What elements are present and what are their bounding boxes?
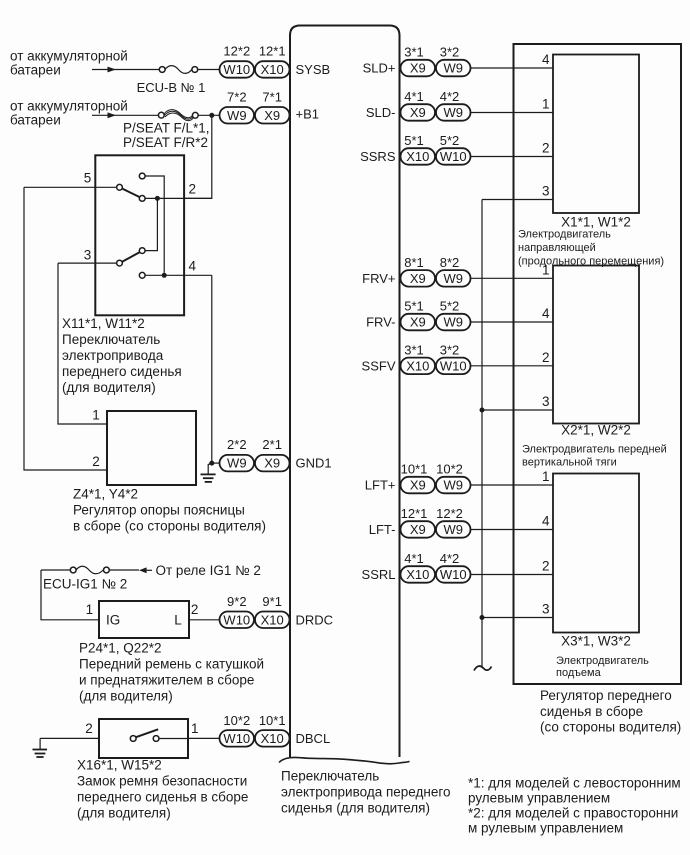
svg-text:2: 2 — [189, 182, 197, 197]
switch arm pin3 — [122, 252, 140, 262]
wire battery feed 1 — [92, 69, 159, 71]
svg-text:переднего сиденья в сборе: переднего сиденья в сборе — [77, 790, 248, 805]
wire buckle internal — [159, 738, 188, 740]
label fuse ECU-B № 1 — [137, 80, 206, 95]
switch arm pin5 — [122, 189, 140, 198]
svg-text:подъема: подъема — [556, 667, 602, 679]
connector W9 (12*2) — [436, 521, 471, 538]
pin 2 label of motor M3 — [542, 559, 550, 574]
wire W9 to motor pin (row y=322.0) — [470, 321, 553, 323]
motor M3 (X3) box — [553, 474, 639, 633]
wire fuse to arrow — [109, 569, 139, 571]
node: from battery (feed 1) text — [10, 49, 128, 78]
pin label SSRL of switch block — [362, 567, 396, 582]
svg-text:X9: X9 — [264, 108, 280, 123]
wire W9 to motor pin (row y=112.5) — [470, 112, 553, 114]
svg-text:4: 4 — [542, 52, 550, 67]
wire pin5 bus down to lumbar pin 2 — [24, 187, 107, 470]
svg-text:W10: W10 — [223, 612, 250, 627]
P24 pin IG label — [106, 612, 120, 627]
svg-text:12*2: 12*2 — [436, 506, 463, 521]
P24 pin L label — [174, 612, 182, 627]
pin labels 5*1 5*2 — [404, 299, 459, 314]
buckle contact right — [153, 736, 159, 742]
connector W10 (12*2) — [220, 61, 255, 77]
svg-text:Электродвигатель передней: Электродвигатель передней — [522, 443, 667, 455]
wire P24 pin2 to connector — [189, 619, 220, 621]
connector X9 (12*1) — [401, 521, 436, 538]
pin 2 label of motor M2 — [542, 350, 550, 365]
svg-text:батареи: батареи — [10, 113, 61, 128]
svg-text:X3*1, W3*2: X3*1, W3*2 — [561, 634, 631, 649]
connector X10 (5*1) — [401, 148, 436, 165]
svg-text:SLD-: SLD- — [366, 105, 396, 120]
svg-text:5*2: 5*2 — [440, 133, 460, 148]
lumbar regulator Z4*1 Y4*2 box — [107, 411, 196, 485]
connector X9 (3*1) — [401, 60, 436, 77]
svg-text:8*1: 8*1 — [404, 255, 424, 270]
svg-text:5: 5 — [84, 171, 92, 186]
pin 4 label of motor M2 — [542, 306, 550, 321]
svg-text:3*1: 3*1 — [404, 45, 424, 60]
pin label SLD- of switch block — [366, 105, 396, 120]
pin labels 5*1 5*2 — [404, 133, 459, 148]
pin labels 3*1 3*2 — [404, 342, 459, 357]
junction +B1 node — [209, 113, 214, 118]
svg-text:2: 2 — [191, 602, 199, 617]
svg-text:4*2: 4*2 — [440, 551, 460, 566]
pin label SSRS of switch block — [360, 149, 396, 164]
pin 5 label — [84, 171, 92, 186]
svg-text:от аккумуляторной: от аккумуляторной — [10, 99, 128, 114]
connector W9 (10*2) — [436, 477, 471, 494]
svg-text:2: 2 — [542, 350, 550, 365]
svg-text:*2: для моделей с правосторонн: *2: для моделей с правосторонни — [468, 806, 678, 821]
wire pin3 bus down to lumbar pin 1 — [58, 263, 107, 424]
pin labels 3*1 3*2 — [404, 45, 459, 60]
contact pin5 circle — [117, 184, 123, 190]
fuse ECU-IG1 No2 — [70, 566, 109, 574]
connector X9 (4*1) — [401, 104, 436, 121]
svg-text:10*2: 10*2 — [436, 462, 463, 477]
svg-text:X16*1, W15*2: X16*1, W15*2 — [77, 758, 162, 773]
svg-text:(со стороны водителя): (со стороны водителя) — [540, 720, 681, 735]
pin label GND1 of switch block — [296, 456, 332, 471]
lumbar pin 2 label — [92, 454, 100, 469]
svg-text:SSRS: SSRS — [360, 149, 396, 164]
wire battery feed 2 — [92, 114, 159, 116]
connector W9 (8*2) — [436, 270, 471, 287]
pin 1 label of motor M3 — [542, 469, 550, 484]
connector W10 (5*2) — [436, 148, 471, 165]
svg-text:От реле IG1 № 2: От реле IG1 № 2 — [156, 563, 261, 578]
pin label SYSB of switch block — [296, 62, 331, 77]
svg-text:7*2: 7*2 — [227, 89, 247, 104]
svg-text:X9: X9 — [410, 61, 426, 76]
svg-text:4: 4 — [542, 514, 550, 529]
connector X10 (3*1) — [401, 358, 436, 375]
svg-text:12*2: 12*2 — [223, 44, 250, 59]
junction j2 in switch — [162, 273, 167, 278]
pin label FRV+ of switch block — [362, 271, 395, 286]
svg-text:3: 3 — [84, 247, 92, 262]
svg-text:SSFV: SSFV — [362, 358, 396, 373]
connector X9 (8*1) — [401, 270, 436, 287]
wire W10 to motor pin (row y=574.5) — [470, 574, 553, 576]
svg-text:1: 1 — [86, 602, 94, 617]
svg-text:Замок ремня безопасности: Замок ремня безопасности — [77, 774, 247, 789]
svg-text:4*1: 4*1 — [404, 551, 424, 566]
junction bus-M3pin3 — [480, 615, 485, 620]
svg-text:X10: X10 — [406, 358, 429, 373]
wire W9 to motor pin (row y=278.3) — [470, 277, 553, 279]
svg-text:X9: X9 — [410, 271, 426, 286]
wire W10 to motor pin (row y=365.8) — [470, 365, 553, 367]
junction j1 in switch — [155, 196, 160, 201]
switch X11*1 W11*2 box — [95, 155, 184, 315]
svg-text:от аккумуляторной: от аккумуляторной — [10, 49, 128, 64]
svg-text:9*2: 9*2 — [227, 594, 247, 609]
pin labels 4*1 4*2 — [404, 551, 459, 566]
svg-text:(для водителя): (для водителя) — [62, 380, 156, 395]
pin 2 label — [189, 182, 197, 197]
svg-text:ECU-IG1 № 2: ECU-IG1 № 2 — [43, 577, 127, 592]
svg-text:DRDC: DRDC — [296, 612, 334, 627]
svg-text:X9: X9 — [264, 456, 280, 471]
svg-text:сиденья в сборе: сиденья в сборе — [540, 704, 643, 719]
svg-text:направляющей: направляющей — [518, 242, 596, 254]
contact b circle — [139, 196, 145, 202]
wire link to connector W9 — [198, 114, 219, 116]
svg-text:12*1: 12*1 — [259, 44, 286, 59]
svg-text:(для водителя): (для водителя) — [77, 806, 171, 821]
svg-text:W10: W10 — [440, 149, 467, 164]
svg-text:Переключатель: Переключатель — [62, 332, 160, 347]
svg-text:Переключатель: Переключатель — [281, 769, 379, 784]
wire contact a to internal bus — [145, 176, 164, 273]
svg-text:4*2: 4*2 — [440, 89, 460, 104]
svg-text:Передний ремень с катушкой: Передний ремень с катушкой — [79, 657, 264, 672]
contact pin3 circle — [117, 260, 123, 266]
pin 2 label of motor M1 — [542, 141, 550, 156]
svg-text:W9: W9 — [227, 108, 247, 123]
svg-text:10*1: 10*1 — [401, 462, 428, 477]
svg-text:W9: W9 — [443, 315, 463, 330]
connector X9 (2*1) — [255, 455, 290, 472]
svg-text:м рулевым управлением: м рулевым управлением — [468, 821, 623, 836]
connector W10 (9*2) — [220, 612, 255, 629]
svg-text:1: 1 — [191, 721, 199, 736]
buckle contact left — [130, 736, 136, 742]
wire M1 pin3 to common bus — [482, 199, 553, 201]
arrow from relay IG1 — [139, 567, 152, 573]
connector X10 (12*1) — [255, 61, 290, 77]
connector W10 (10*2) — [220, 730, 255, 747]
connector W9 (7*2) — [220, 107, 255, 124]
bus continuation break wave — [474, 666, 492, 670]
svg-text:W10: W10 — [223, 731, 250, 746]
connector W10 (4*2) — [436, 566, 471, 583]
svg-text:5*1: 5*1 — [404, 133, 424, 148]
svg-text:Регулятор опоры поясницы: Регулятор опоры поясницы — [73, 503, 245, 518]
svg-text:1: 1 — [92, 408, 100, 423]
svg-text:8*2: 8*2 — [440, 255, 460, 270]
svg-text:вертикальной тяги: вертикальной тяги — [522, 456, 617, 468]
svg-text:3*2: 3*2 — [440, 45, 460, 60]
svg-text:электропривода: электропривода — [62, 348, 164, 363]
svg-text:X9: X9 — [410, 522, 426, 537]
lumbar caption — [73, 487, 266, 534]
buckle switch X16*1 W15*2 box — [99, 719, 188, 758]
svg-text:1: 1 — [542, 469, 550, 484]
pin 3 label — [84, 247, 92, 262]
connector W10 (3*2) — [436, 358, 471, 375]
node: from battery (feed 2) text — [10, 99, 128, 128]
buckle pin 1 label — [191, 721, 199, 736]
svg-text:W10: W10 — [440, 567, 467, 582]
pin labels 8*1 8*2 — [404, 255, 459, 270]
motor M3 caption — [556, 634, 649, 679]
pin label LFT+ of switch block — [365, 478, 396, 493]
motor M2 caption — [522, 423, 667, 469]
pin 4 label of motor M3 — [542, 514, 550, 529]
svg-text:W9: W9 — [443, 271, 463, 286]
svg-text:W9: W9 — [443, 61, 463, 76]
svg-text:батареи: батареи — [10, 63, 61, 78]
motor M1 (X1) box — [553, 55, 639, 214]
pin labels 7*2 7*1 — [227, 89, 282, 104]
svg-text:5*1: 5*1 — [404, 299, 424, 314]
svg-text:SSRL: SSRL — [362, 567, 396, 582]
svg-text:ECU-B № 1: ECU-B № 1 — [137, 80, 206, 95]
pin 4 label of motor M1 — [542, 52, 550, 67]
op-amp-like main block: power seat switch body U1 — [290, 26, 400, 758]
svg-text:электропривода переднего: электропривода переднего — [281, 785, 450, 800]
svg-text:Z4*1, Y4*2: Z4*1, Y4*2 — [73, 487, 138, 502]
pin labels 2*2 2*1 — [227, 437, 282, 452]
svg-text:10*1: 10*1 — [259, 713, 286, 728]
svg-text:4: 4 — [542, 306, 550, 321]
wire M2 pin3 to bus — [482, 409, 553, 411]
main block bottom break wave — [279, 757, 410, 763]
svg-text:FRV-: FRV- — [366, 315, 395, 330]
node: from relay IG1 № 2 text — [156, 563, 261, 578]
connector X10 (10*1) — [255, 730, 290, 747]
pin 3 label of motor M2 — [542, 394, 550, 409]
svg-text:X9: X9 — [410, 315, 426, 330]
svg-text:+B1: +B1 — [296, 107, 320, 122]
svg-text:X10: X10 — [406, 149, 429, 164]
connector X9 (7*1) — [255, 107, 290, 124]
footnote *1 *2 — [468, 776, 681, 836]
seat regulator assembly box — [514, 44, 682, 684]
svg-text:X2*1, W2*2: X2*1, W2*2 — [561, 423, 631, 438]
svg-text:12*1: 12*1 — [401, 506, 428, 521]
arrow battery feed 1 — [108, 67, 117, 73]
svg-text:и преднатяжителем в сборе: и преднатяжителем в сборе — [79, 673, 254, 688]
wire buckle pin1 to connector — [188, 737, 220, 739]
svg-text:X10: X10 — [261, 612, 284, 627]
contact a (top) of switch X11 — [139, 173, 145, 179]
connector X10 (4*1) — [401, 566, 436, 583]
wire contact b to pin 2 — [145, 197, 212, 199]
pin label SSFV of switch block — [362, 358, 396, 373]
svg-text:FRV+: FRV+ — [362, 271, 395, 286]
pin labels 10*1 10*2 — [401, 462, 463, 477]
svg-text:2: 2 — [92, 454, 100, 469]
svg-text:2*2: 2*2 — [227, 437, 247, 452]
wire fuse feed — [41, 569, 70, 571]
pin 4 label — [189, 258, 197, 273]
wire fuse to connector W10 — [198, 69, 220, 71]
wire pin 3 leaving box — [58, 262, 117, 264]
svg-text:4: 4 — [189, 258, 197, 273]
connector X10 (9*1) — [255, 612, 290, 629]
connector W9 (3*2) — [436, 60, 471, 77]
pretensioner caption — [79, 641, 264, 704]
switch X11 caption — [62, 316, 182, 395]
svg-text:W9: W9 — [443, 478, 463, 493]
svg-text:в сборе (со стороны водителя): в сборе (со стороны водителя) — [73, 519, 266, 534]
connector W9 (2*2) — [220, 455, 255, 472]
wire W9 to motor pin (row y=68.0) — [470, 67, 553, 69]
svg-text:1: 1 — [542, 97, 550, 112]
junction bus-M2pin3 — [480, 408, 485, 413]
svg-text:3: 3 — [542, 184, 550, 199]
svg-text:2*1: 2*1 — [262, 437, 282, 452]
connector X9 (10*1) — [401, 477, 436, 494]
buckle pin 2 label — [85, 721, 93, 736]
wire common bus vertical — [481, 200, 483, 668]
svg-text:LFT-: LFT- — [369, 522, 396, 537]
svg-text:4*1: 4*1 — [404, 89, 424, 104]
svg-text:*1: для моделей с левосторонни: *1: для моделей с левосторонним — [468, 776, 681, 791]
svg-text:(продольного перемещения): (продольного перемещения) — [518, 255, 664, 267]
svg-text:X10: X10 — [261, 62, 284, 77]
wire pin 4 down to GND1 node — [211, 275, 213, 463]
pin label SLD+ of switch block — [363, 61, 396, 76]
pin label DRDC of switch block — [296, 612, 334, 627]
svg-text:W10: W10 — [223, 62, 250, 77]
svg-text:2: 2 — [85, 721, 93, 736]
P24 pin 1 label — [86, 602, 94, 617]
wire ground to buckle pin 2 — [40, 737, 99, 739]
svg-text:IG: IG — [106, 612, 120, 627]
pin 3 label of motor M1 — [542, 184, 550, 199]
svg-text:X10: X10 — [261, 731, 284, 746]
svg-text:LFT+: LFT+ — [365, 478, 396, 493]
pin label DBCL of switch block — [296, 731, 331, 746]
svg-text:переднего сиденья: переднего сиденья — [62, 364, 182, 379]
pin 3 label of motor M3 — [542, 602, 550, 617]
connector W9 (4*2) — [436, 104, 471, 121]
wire +B1 node down to switch pin 2 — [185, 115, 212, 198]
svg-text:3*2: 3*2 — [440, 342, 460, 357]
ground symbol at buckle switch — [33, 738, 48, 757]
svg-text:SLD+: SLD+ — [363, 61, 396, 76]
svg-text:2: 2 — [542, 141, 550, 156]
svg-text:сиденья (для водителя): сиденья (для водителя) — [281, 801, 430, 816]
svg-text:Регулятор переднего: Регулятор переднего — [540, 688, 672, 703]
pin label +B1 of switch block — [296, 107, 320, 122]
main block caption — [281, 769, 450, 816]
svg-text:9*1: 9*1 — [262, 594, 282, 609]
pretensioner P24*1 Q22*2 box — [99, 601, 189, 638]
pin 1 label of motor M2 — [542, 262, 550, 277]
svg-text:P24*1, Q22*2: P24*1, Q22*2 — [79, 641, 162, 656]
wire j1 down to contact c — [145, 198, 157, 250]
pin labels 12*1 12*2 — [401, 506, 463, 521]
svg-text:SYSB: SYSB — [296, 62, 331, 77]
pin label LFT- of switch block — [369, 522, 396, 537]
pin 1 label of motor M1 — [542, 97, 550, 112]
svg-text:DBCL: DBCL — [296, 731, 331, 746]
wire W10 to motor pin (row y=156.5) — [470, 156, 553, 158]
connector W9 (5*2) — [436, 314, 471, 331]
svg-text:X10: X10 — [406, 567, 429, 582]
label fusible link P/SEAT — [123, 120, 210, 150]
contact d (bottom) circle — [139, 272, 145, 278]
svg-text:3: 3 — [542, 602, 550, 617]
wire GND1 node to connector — [212, 462, 220, 464]
pin labels 12*2 12*1 — [223, 44, 285, 59]
lumbar pin 1 label — [92, 408, 100, 423]
svg-text:3: 3 — [542, 394, 550, 409]
wire from fuse down to P24 pin 1 — [41, 570, 99, 620]
pin label FRV- of switch block — [366, 315, 395, 330]
svg-text:X9: X9 — [410, 478, 426, 493]
wire M3 pin3 to bus — [482, 617, 553, 619]
svg-text:7*1: 7*1 — [262, 89, 282, 104]
pin labels 10*2 10*1 — [223, 713, 285, 728]
svg-text:W9: W9 — [443, 105, 463, 120]
svg-text:X9: X9 — [410, 105, 426, 120]
svg-text:5*2: 5*2 — [440, 299, 460, 314]
P24 pin 2 label — [191, 602, 199, 617]
svg-text:3*1: 3*1 — [404, 342, 424, 357]
svg-text:Электродвигатель: Электродвигатель — [556, 655, 649, 667]
svg-text:Электродвигатель: Электродвигатель — [518, 228, 611, 240]
contact c circle — [139, 248, 145, 254]
svg-text:W9: W9 — [227, 456, 247, 471]
pin labels 9*2 9*1 — [227, 594, 282, 609]
svg-text:10*2: 10*2 — [223, 713, 250, 728]
buckle switch arm — [136, 729, 158, 737]
svg-text:L: L — [174, 612, 182, 627]
arrow battery feed 2 — [108, 112, 117, 118]
seat regulator assembly caption — [540, 688, 681, 735]
wire W9 to motor pin (row y=529.5) — [470, 529, 553, 531]
label fuse ECU-IG1 № 2 — [43, 577, 127, 592]
svg-text:P/SEAT F/R*2: P/SEAT F/R*2 — [123, 135, 208, 150]
motor M2 (X2) box — [553, 266, 639, 424]
ground symbol at GND1 — [201, 464, 216, 482]
svg-text:2: 2 — [542, 559, 550, 574]
fusible link P/SEAT — [158, 110, 198, 121]
svg-text:рулевым управлением: рулевым управлением — [468, 791, 610, 806]
wire contact d to pin 4 — [145, 274, 212, 276]
fuse ECU-B No1 — [159, 66, 197, 74]
svg-text:P/SEAT F/L*1,: P/SEAT F/L*1, — [123, 120, 210, 135]
svg-text:(для водителя): (для водителя) — [79, 689, 173, 704]
svg-text:W10: W10 — [440, 358, 467, 373]
pin labels 4*1 4*2 — [404, 89, 459, 104]
motor M1 caption — [518, 215, 664, 268]
svg-text:X11*1, W11*2: X11*1, W11*2 — [62, 316, 145, 331]
wire pin 5 entering box — [24, 186, 117, 188]
junction GND1 node — [209, 461, 214, 466]
connector X9 (5*1) — [401, 314, 436, 331]
